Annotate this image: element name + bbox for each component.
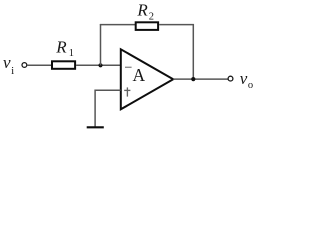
wire: feedback riser from inverting node up bbox=[100, 24, 102, 65]
resistor R1 bbox=[52, 61, 75, 69]
svg-text:v: v bbox=[3, 53, 11, 72]
svg-text:2: 2 bbox=[149, 11, 154, 22]
svg-text:A: A bbox=[133, 65, 146, 85]
op-amp minus sign (inverting input mark) bbox=[125, 66, 132, 68]
svg-text:v: v bbox=[240, 69, 248, 88]
wire: non-inverting input to ground riser bbox=[95, 90, 121, 127]
svg-text:o: o bbox=[248, 80, 253, 91]
svg-text:1: 1 bbox=[69, 48, 74, 59]
wire: op-amp output bbox=[173, 78, 228, 80]
op-amp A (triangle) bbox=[121, 49, 173, 109]
op-amp plus sign (non-inverting input mark) bbox=[124, 87, 130, 96]
wire: R1 to op-amp inverting input bbox=[76, 64, 121, 66]
ground bbox=[87, 126, 104, 128]
wire: feedback riser down to output bbox=[192, 24, 194, 79]
svg-text:i: i bbox=[11, 65, 14, 77]
node: output junction bbox=[191, 77, 195, 81]
node vi: input terminal circle bbox=[22, 63, 27, 68]
label v_o (output voltage) bbox=[240, 69, 253, 91]
label R2 bbox=[136, 1, 154, 23]
node vo: output terminal circle bbox=[228, 76, 233, 81]
node: inverting input junction bbox=[98, 63, 102, 67]
label v_i (input voltage) bbox=[3, 53, 14, 77]
resistor R2 bbox=[136, 22, 158, 30]
svg-text:R: R bbox=[136, 1, 148, 20]
wire: input terminal to R1 bbox=[27, 64, 52, 66]
label R1 bbox=[55, 38, 74, 60]
wire: R2 to feedback right corner bbox=[159, 24, 194, 26]
wire: feedback top left segment to R2 bbox=[100, 24, 136, 26]
svg-text:R: R bbox=[55, 38, 67, 57]
